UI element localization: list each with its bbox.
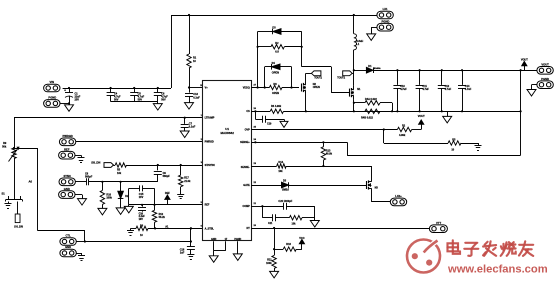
ground comp	[310, 221, 319, 228]
svg-text:56.2k: 56.2k	[159, 216, 166, 219]
diode D5	[258, 27, 302, 88]
wire A0 riser	[29, 148, 38, 231]
capacitor C4 4.7uF	[107, 87, 121, 102]
net flag TOUT1 at N2 drain	[306, 71, 323, 81]
svg-text:4.7uF: 4.7uF	[445, 88, 452, 91]
connector CTL	[60, 234, 76, 246]
ground IC analog	[209, 256, 218, 262]
wire VOUT sense vertical	[520, 70, 522, 155]
svg-text:SH_DN: SH_DN	[14, 224, 23, 228]
capacitor C13 0.1uF	[185, 88, 200, 103]
wire OVP divider stub	[383, 130, 385, 144]
ground below C18	[187, 255, 194, 260]
ground below C13	[185, 103, 194, 110]
ground for REF connector	[75, 155, 85, 162]
net flag TOUT1 at LX node	[337, 71, 354, 80]
IC bottom ground stubs	[214, 241, 226, 256]
svg-text:COMP: COMP	[243, 205, 251, 208]
svg-text:LTRAMP: LTRAMP	[205, 117, 215, 120]
watermark text dian	[448, 240, 534, 256]
svg-text:C20 1000pF: C20 1000pF	[278, 200, 292, 203]
diode D2	[118, 182, 129, 208]
svg-text:R4A 0.022: R4A 0.022	[365, 98, 377, 101]
resistor R2B 4.99k	[397, 124, 411, 136]
resistor R14 10k	[277, 161, 287, 173]
svg-text:10k: 10k	[292, 222, 297, 225]
connector LX2	[390, 194, 406, 206]
svg-text:10k: 10k	[117, 172, 122, 175]
svg-text:S1: S1	[2, 191, 6, 195]
wire SHDN up to STBY net	[190, 227, 192, 242]
resistor R13 49.9k	[321, 142, 332, 166]
wire pot to switch	[14, 159, 16, 197]
svg-text:RT: RT	[247, 227, 251, 230]
svg-text:VOUT: VOUT	[541, 63, 549, 67]
capacitor C14 4.7uF (output)	[458, 70, 472, 112]
connector PWRGD	[59, 134, 75, 146]
ground PGND output	[527, 85, 537, 97]
diode D1 B340A	[354, 65, 537, 73]
svg-text:SENSE+: SENSE+	[240, 141, 250, 144]
svg-text:PGND: PGND	[48, 95, 56, 99]
capacitor C11 4.7uF (output)	[416, 70, 430, 112]
ground STBY divider	[127, 228, 134, 235]
wire N1 drain to LX	[353, 70, 355, 85]
connector pin SH_DN	[14, 202, 23, 229]
svg-text:PWRGD: PWRGD	[62, 134, 72, 138]
wire OVP net	[251, 126, 397, 130]
power flag VOUT (top right)	[521, 58, 528, 70]
wire pot top to A0 riser	[13, 147, 38, 149]
ground below C1	[65, 102, 74, 111]
svg-text:PGND: PGND	[541, 77, 549, 81]
wire input cap bus	[111, 101, 158, 103]
wire top LX rail	[171, 14, 377, 16]
power flag VOUT (feedback)	[412, 115, 425, 129]
ground input caps	[153, 102, 162, 111]
watermark url text	[447, 263, 548, 275]
wire SHDN to IC	[127, 162, 204, 166]
svg-text:10V: 10V	[139, 218, 144, 221]
svg-text:www.elecfans.com: www.elecfans.com	[447, 263, 548, 275]
svg-text:OPEN: OPEN	[272, 92, 279, 95]
capacitor C6 4.7uF	[154, 87, 168, 102]
svg-text:SENSE-: SENSE-	[241, 166, 250, 169]
svg-text:VCC: VCC	[299, 237, 304, 240]
capacitor C1 22uF	[64, 87, 81, 104]
wire VIN rail	[63, 88, 171, 90]
capacitor C5 4.7uF	[130, 87, 144, 102]
wire to N2 gate	[282, 86, 299, 88]
watermark logo	[407, 240, 440, 273]
ground for GND signal connector	[75, 195, 87, 206]
ground at left of CC net	[124, 205, 133, 213]
resistor R17 21.0k	[179, 164, 192, 194]
connector VTT	[429, 221, 447, 233]
svg-text:VOUT: VOUT	[418, 115, 425, 118]
capacitor C16	[138, 205, 146, 221]
capacitor C21 + resistor R15 (comp)	[262, 206, 314, 225]
resistor R12 56.2k	[152, 205, 165, 229]
svg-text:OPEN: OPEN	[272, 72, 279, 75]
wire SHDN horizontal	[85, 241, 191, 243]
svg-text:100k: 100k	[106, 197, 112, 200]
svg-text:ST/SYNC: ST/SYNC	[205, 164, 216, 167]
svg-text:25V: 25V	[75, 99, 80, 102]
wire PWRGD to IC	[76, 139, 203, 142]
svg-text:A_STBL: A_STBL	[205, 227, 215, 230]
svg-text:REF: REF	[64, 147, 70, 151]
power flag VCC	[299, 237, 304, 249]
potentiometer R9 50k	[2, 142, 19, 161]
ground below S1 left pin	[5, 202, 12, 209]
svg-text:4.7uF: 4.7uF	[400, 88, 407, 91]
op-amp U1 MAX8632 IC body	[203, 81, 252, 242]
svg-text:1uF: 1uF	[180, 252, 185, 255]
svg-text:C21: C21	[268, 222, 273, 225]
svg-text:4.7uF: 4.7uF	[465, 88, 472, 91]
capacitor C12 4.7uF (output)	[438, 70, 452, 112]
capacitor C19 (CS filter)	[255, 111, 284, 125]
node LX junction	[353, 69, 355, 71]
wire REF/CC net	[129, 202, 203, 206]
transistor N3	[367, 178, 379, 192]
diode D3 SMBJ	[282, 179, 290, 191]
wire COMP net	[251, 203, 263, 207]
svg-text:6.8: 6.8	[275, 50, 279, 53]
ground below R17	[177, 195, 184, 199]
svg-text:R14: R14	[278, 161, 283, 164]
diode D4 OPEN	[265, 62, 292, 87]
svg-text:OVP: OVP	[245, 128, 250, 131]
IC pad stub	[237, 241, 239, 254]
svg-text:21.0k: 21.0k	[184, 180, 191, 183]
capacitor C9 560pF	[154, 165, 170, 182]
svg-text:SYNC: SYNC	[63, 174, 71, 178]
wire bst loop right vertical	[301, 32, 303, 67]
wire N3 drain	[371, 166, 373, 178]
net flag SH_DN	[91, 160, 113, 167]
svg-text:PGND: PGND	[234, 238, 241, 241]
connector VIN	[44, 80, 60, 92]
ground output caps	[443, 111, 452, 123]
power flag REF	[165, 192, 171, 205]
wire VIN riser to top rail	[171, 15, 173, 88]
svg-text:4.99k: 4.99k	[399, 134, 406, 137]
svg-text:MAX8632: MAX8632	[221, 131, 235, 135]
connector GND (bottom left)	[60, 245, 76, 257]
svg-text:A0: A0	[29, 179, 33, 183]
wire left riser to pot	[14, 118, 16, 148]
svg-text:LX1: LX1	[383, 7, 388, 11]
svg-text:4.7uF: 4.7uF	[422, 88, 429, 91]
connector PGND (top)	[377, 19, 393, 31]
capacitor C18 1uF	[180, 242, 195, 255]
svg-text:CTL: CTL	[65, 234, 71, 238]
wire N1 gate route	[302, 67, 349, 93]
wire R1 to IC V+ pin	[188, 85, 204, 88]
svg-text:+: +	[64, 89, 66, 93]
wire SENSE+ net	[251, 138, 347, 143]
wire STBY to IC	[148, 226, 203, 230]
resistor R6 10	[131, 224, 149, 236]
svg-text:GATE: GATE	[243, 184, 250, 187]
svg-text:49.9k: 49.9k	[326, 153, 333, 156]
svg-text:50V: 50V	[161, 99, 166, 102]
wire VDDQ pin net	[251, 84, 269, 88]
svg-text:PGND: PGND	[382, 19, 390, 23]
ground below D2	[116, 208, 125, 215]
svg-text:OPEN: OPEN	[313, 86, 320, 89]
svg-text:VIN: VIN	[50, 80, 55, 84]
capacitor C20 1000pF	[262, 200, 314, 210]
svg-text:VOUT: VOUT	[521, 58, 528, 61]
svg-text:B340A: B340A	[374, 67, 381, 70]
connector REF	[59, 147, 75, 159]
resistor R4B 0.022 (sense)	[361, 109, 380, 120]
connector PGND (output)	[537, 77, 553, 89]
VOUT rail junction dots	[396, 69, 521, 71]
ground C19	[280, 119, 288, 127]
svg-text:VDDQ: VDDQ	[243, 86, 250, 89]
svg-text:REF: REF	[165, 192, 170, 195]
svg-text:VTT: VTT	[436, 221, 441, 225]
svg-text:R3 4.99k: R3 4.99k	[271, 105, 282, 108]
svg-text:SMBJ: SMBJ	[282, 189, 290, 192]
wire N3 source to LX2	[371, 192, 390, 202]
capacitor C10 4.7uF (output)	[393, 70, 407, 112]
svg-text:560pF: 560pF	[85, 176, 93, 179]
svg-text:GND: GND	[65, 245, 71, 249]
wire RT divider	[273, 228, 275, 255]
svg-text:560pF: 560pF	[163, 175, 171, 178]
svg-text:CS: CS	[246, 110, 250, 113]
resistor R8 OPEN (series)	[269, 83, 282, 95]
resistor R16 (to VCC)	[274, 243, 302, 252]
wire RT/VTT net	[251, 225, 429, 229]
svg-text:SH_DN: SH_DN	[91, 160, 100, 164]
wire GATE net	[251, 182, 366, 186]
wire CS / PGND rail	[251, 108, 520, 112]
svg-text:0.1uF: 0.1uF	[193, 96, 200, 99]
resistor R5B 10	[384, 138, 461, 151]
ground OVP divider	[461, 143, 482, 151]
svg-text:R4B 0.022: R4B 0.022	[361, 117, 374, 120]
capacitor C7 0.1uF	[181, 118, 196, 131]
transistor N1	[350, 86, 362, 100]
wire SYNC net	[89, 181, 158, 183]
ground for GND connector	[76, 253, 85, 261]
wire N1 source	[353, 100, 355, 113]
wire CTL to node	[76, 240, 86, 242]
svg-text:50k: 50k	[2, 145, 7, 148]
svg-text:100k: 100k	[266, 262, 272, 265]
wire SENSE+ jog to VOUT sense	[347, 142, 520, 155]
svg-text:R16: R16	[286, 243, 291, 246]
resistor R3 4.99k	[270, 105, 283, 114]
resistor R10 100k	[100, 182, 112, 209]
wire SENSE- net	[251, 163, 371, 167]
capacitor C15 loop (open)	[129, 185, 155, 204]
connector VOUT	[537, 63, 553, 75]
resistor R5 10k	[114, 163, 127, 175]
svg-text:C19: C19	[267, 123, 272, 126]
switch S1	[2, 191, 23, 201]
resistor R2 6.8	[257, 42, 303, 53]
connector PGND (input)	[44, 95, 60, 107]
ground PGND top	[367, 27, 377, 40]
resistor R1 10 (V+ filter)	[187, 15, 197, 88]
svg-text:PWRGD: PWRGD	[205, 141, 214, 144]
ground R11	[270, 271, 279, 278]
wire N2 source to CS rail	[305, 95, 307, 113]
wire SHDN routing	[37, 231, 85, 242]
resistor R4A 0.022 (sense)	[354, 98, 393, 113]
wire PGND to C1 bottom	[60, 103, 69, 105]
capacitor C8 560pF (series)	[75, 172, 92, 185]
resistor R11 100k	[266, 255, 276, 271]
transistor N2 OPEN	[302, 81, 320, 95]
svg-text:TOUT1: TOUT1	[314, 77, 322, 80]
svg-text:LX2+: LX2+	[395, 194, 402, 198]
inductor L1 6.8uH	[354, 15, 364, 70]
connector GND (signal)	[59, 187, 75, 199]
svg-text:16V: 16V	[139, 196, 144, 199]
svg-text:GND: GND	[211, 238, 217, 241]
ground IC pad	[233, 254, 242, 261]
svg-text:REF: REF	[205, 204, 210, 207]
svg-text:TOUT1: TOUT1	[337, 77, 345, 80]
svg-text:0.1uF: 0.1uF	[189, 126, 196, 129]
svg-text:GND: GND	[64, 187, 70, 191]
ground below C7	[180, 131, 189, 138]
connector LX1	[377, 7, 393, 19]
svg-text:10k: 10k	[278, 170, 283, 173]
wire LTRAMP net	[14, 115, 203, 119]
connector SYNC	[59, 174, 75, 186]
wire comp right vertical	[314, 206, 316, 220]
ground below R10	[98, 208, 107, 215]
